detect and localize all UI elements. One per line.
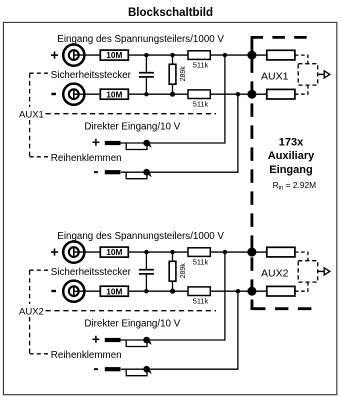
- resistor R25 511k (bottom): [188, 287, 210, 306]
- svg-text:Rin = 2.92M: Rin = 2.92M: [273, 180, 317, 191]
- output arrow AUX1: [318, 71, 330, 78]
- terminal bar (direct +): [105, 338, 121, 342]
- dashed bracket: safety plug group: [30, 270, 49, 354]
- resistor R16 (internal top): [267, 50, 295, 60]
- wire: J11 to R11: [74, 54, 101, 56]
- node: bottom tap junction: [236, 92, 240, 96]
- connector X2 (dashed box): [298, 261, 318, 282]
- wire: top tap down to + terminal: [121, 55, 225, 143]
- capacitor C21: [139, 252, 154, 291]
- svg-text:173x: 173x: [279, 137, 304, 149]
- node: bottom tap junction: [236, 289, 240, 293]
- svg-text:Sicherheitsstecker: Sicherheitsstecker: [51, 267, 132, 278]
- resistor R12 10M: [100, 89, 128, 99]
- terminal bar (direct -): [105, 367, 121, 371]
- node: top tap junction: [223, 53, 227, 57]
- connector X1 (dashed box): [298, 64, 318, 85]
- svg-text:511k: 511k: [193, 257, 209, 266]
- node: bus AUX2 top (big): [247, 248, 256, 257]
- resistor R22 10M: [100, 286, 128, 296]
- plus sign (divider input AUX1): [51, 52, 58, 59]
- plus sign (direct input AUX2): [92, 336, 99, 343]
- node: R13 bottom junction: [170, 92, 175, 97]
- svg-text:10M: 10M: [106, 89, 122, 99]
- jack J22 (-) safety socket: [63, 281, 84, 302]
- node: C21 top junction: [144, 250, 148, 254]
- boundary: 173x block top edge (thick dashed): [251, 36, 313, 39]
- resistor R21 10M: [100, 247, 128, 257]
- boundary: 173x block bottom edge (thick dashed): [252, 307, 313, 310]
- wire: top tap down to + terminal: [121, 252, 225, 340]
- svg-text:10M: 10M: [106, 50, 122, 60]
- resistor R17 (internal bottom): [267, 89, 295, 99]
- wire: R22 to bus node: [128, 290, 252, 292]
- wire: bus to R27: [252, 290, 267, 292]
- wire: bus to R16: [252, 54, 267, 56]
- wire: J12 to R12: [74, 93, 101, 95]
- jack J12 (-) safety socket: [63, 84, 84, 105]
- resistor R26 (internal top): [267, 247, 295, 257]
- wire: R11 to bus node: [128, 54, 252, 56]
- dashed bracket: safety plug group: [30, 73, 49, 157]
- svg-text:AUX2: AUX2: [261, 267, 289, 279]
- resistor R15 511k (bottom): [188, 90, 210, 109]
- resistor R11 10M: [100, 50, 128, 60]
- node: C11 top junction: [144, 53, 148, 57]
- svg-text:511k: 511k: [193, 296, 209, 305]
- disconnect terminal (direct -): [126, 366, 152, 376]
- svg-text:Eingang: Eingang: [269, 164, 312, 176]
- node: C21 bottom junction: [144, 289, 148, 293]
- svg-text:Eingang des Spannungsteilers/1: Eingang des Spannungsteilers/1000 V: [57, 231, 224, 242]
- node: top tap junction: [223, 250, 227, 254]
- boundary: 173x block corner stub (bottom-left): [250, 300, 253, 311]
- svg-text:AUX2: AUX2: [19, 306, 44, 317]
- wire: bottom tap down to - terminal: [121, 291, 238, 369]
- terminal bar (direct -): [105, 170, 121, 174]
- svg-text:10M: 10M: [106, 247, 122, 257]
- svg-text:Eingang des Spannungsteilers/1: Eingang des Spannungsteilers/1000 V: [57, 34, 224, 45]
- node: bus AUX1 top (big): [247, 51, 256, 60]
- dashed wire: R16 to connector X1: [295, 55, 308, 64]
- disconnect terminal (direct +): [126, 140, 152, 150]
- dashed wire: R26 to connector X2: [295, 252, 308, 261]
- svg-text:Direkter Eingang/10 V: Direkter Eingang/10 V: [84, 122, 180, 133]
- node: C11 bottom junction: [144, 92, 148, 96]
- node: R23 top junction: [170, 250, 174, 254]
- minus sign (direct input AUX2): [94, 368, 98, 370]
- wire: bottom tap down to - terminal: [121, 94, 238, 172]
- node: R13 top junction: [170, 53, 174, 57]
- svg-text:Reihenklemmen: Reihenklemmen: [51, 350, 122, 361]
- minus sign (divider input AUX2): [51, 290, 56, 292]
- node: R23 bottom junction: [170, 289, 175, 294]
- svg-text:Direkter Eingang/10 V: Direkter Eingang/10 V: [84, 319, 180, 330]
- resistor R14 511k (top): [188, 51, 210, 70]
- plus sign (direct input AUX1): [92, 139, 99, 146]
- plus sign (divider input AUX2): [51, 249, 58, 256]
- output arrow AUX2: [318, 268, 330, 275]
- disconnect terminal (direct -): [126, 169, 152, 179]
- svg-text:Sicherheitsstecker: Sicherheitsstecker: [51, 70, 132, 81]
- wire: bus to R26: [252, 251, 267, 253]
- jack J21 (+) safety socket: [63, 242, 84, 263]
- resistor R23 289k (shunt): [169, 252, 176, 291]
- wire: R21 to bus node: [128, 251, 252, 253]
- node: bus AUX1 bottom (big): [247, 90, 256, 99]
- wire: J21 to R21: [74, 251, 101, 253]
- dashed net line AUX2: [46, 310, 217, 312]
- disconnect terminal (direct +): [126, 337, 152, 347]
- node: bus AUX2 bottom (big): [247, 287, 256, 296]
- svg-text:AUX1: AUX1: [19, 109, 44, 120]
- svg-text:289k: 289k: [180, 263, 187, 279]
- capacitor C11: [139, 55, 154, 94]
- svg-text:289k: 289k: [180, 66, 187, 82]
- svg-text:511k: 511k: [193, 99, 209, 108]
- svg-text:511k: 511k: [193, 60, 209, 69]
- resistor R13 289k (shunt): [169, 55, 176, 94]
- svg-text:10M: 10M: [106, 286, 122, 296]
- svg-text:AUX1: AUX1: [261, 70, 289, 82]
- resistor R24 511k (top): [188, 248, 210, 266]
- jack J11 (+) safety socket: [63, 45, 84, 66]
- svg-text:Blockschaltbild: Blockschaltbild: [128, 7, 213, 19]
- minus sign (direct input AUX1): [94, 171, 98, 173]
- dashed net line AUX1: [46, 113, 217, 115]
- svg-text:Auxiliary: Auxiliary: [268, 150, 315, 162]
- dashed wire: R17 to connector X1: [295, 85, 308, 94]
- wire: J22 to R22: [74, 290, 101, 292]
- wire: R12 to bus node: [128, 93, 252, 95]
- terminal bar (direct +): [105, 141, 121, 145]
- wire: bus to R17: [252, 93, 267, 95]
- boundary: 173x block left edge (thick dashed): [250, 37, 253, 308]
- svg-text:Reihenklemmen: Reihenklemmen: [51, 153, 122, 164]
- resistor R27 (internal bottom): [267, 286, 295, 296]
- minus sign (divider input AUX1): [51, 93, 56, 95]
- dashed wire: R27 to connector X2: [295, 282, 308, 291]
